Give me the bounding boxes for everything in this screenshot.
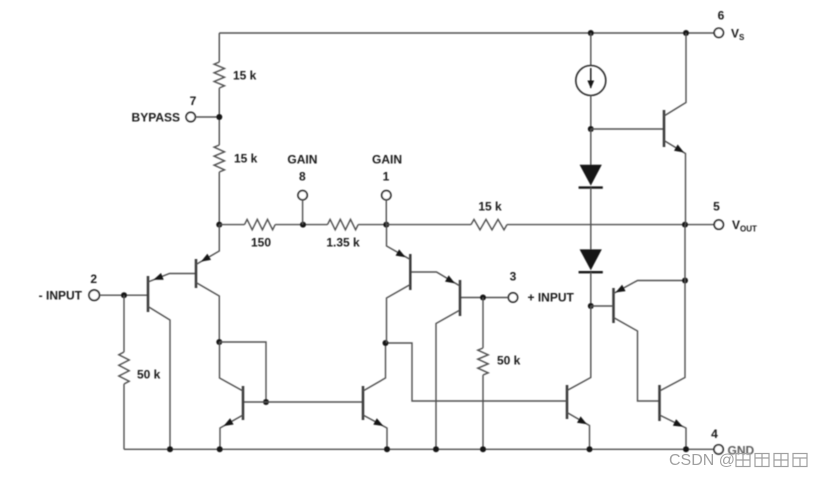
resistor R7 50k [478, 348, 521, 375]
node ground / Q7 emitter [587, 446, 593, 452]
transistor Q9 output NPN top [664, 33, 686, 225]
node gain-8 junction [300, 222, 306, 228]
svg-text:8: 8 [299, 170, 306, 184]
diode CR1 [579, 165, 603, 188]
node +input junction [480, 295, 486, 301]
svg-text:3: 3 [510, 270, 517, 284]
node mirror base junction [263, 399, 269, 405]
diode CR2 [579, 249, 603, 272]
svg-text:15 k: 15 k [478, 200, 502, 214]
node top rail / Q9 collector junction [683, 30, 689, 36]
node bypass junction [216, 114, 222, 120]
pin 6 Vs terminal [714, 9, 745, 43]
node Vout junction [682, 222, 688, 228]
pin 5 Vout terminal [713, 200, 757, 234]
wire pin7 to bypass node [195, 116, 219, 118]
svg-text:2: 2 [90, 272, 97, 286]
wire mirror diode-connect loop [219, 342, 266, 402]
pin 1 GAIN terminal [372, 153, 402, 225]
wire R3 to gain-8 node [275, 224, 327, 226]
pin 3 +INPUT terminal [508, 270, 574, 305]
pin 4 GND terminal [711, 427, 754, 458]
wire CR2 to Q10 base node [590, 272, 592, 306]
wire +input node to R7 [482, 298, 484, 349]
wire cs node to Q9 base [591, 128, 664, 130]
node gain-1 junction [383, 222, 389, 228]
resistor R4 1.35k [326, 219, 360, 249]
resistor R5 15k feedback [471, 200, 507, 230]
wire R7 to ground rail [482, 375, 484, 449]
svg-text:- INPUT: - INPUT [39, 288, 83, 302]
transistor Q10 driver PNP [591, 281, 685, 402]
svg-text:GAIN: GAIN [287, 153, 317, 167]
wire pin2 to Q1 base [100, 294, 149, 296]
svg-text:150: 150 [251, 236, 271, 250]
svg-text:VOUT: VOUT [732, 218, 757, 234]
svg-text:1.35 k: 1.35 k [326, 236, 360, 250]
node ground / Q8 emitter [683, 446, 689, 452]
node current mirror input junction [216, 339, 222, 345]
wire CR1 to CR2 [590, 188, 592, 250]
transistor Q3 input PNP [410, 272, 460, 449]
svg-text:VS: VS [731, 27, 745, 43]
wire R6 to ground rail [123, 384, 125, 449]
svg-text:4: 4 [711, 427, 718, 441]
svg-text:BYPASS: BYPASS [132, 111, 180, 125]
wire top supply rail [219, 32, 714, 34]
transistor Q7 gain NPN [567, 306, 591, 449]
node ground / Q5 emitter [217, 446, 223, 452]
wire cs node to diode CR1 [590, 129, 592, 165]
pin 7 BYPASS terminal [132, 94, 197, 125]
node diode bottom junction [588, 303, 594, 309]
wire mirror base line [243, 401, 363, 403]
watermark CSDN [669, 452, 809, 470]
pin 8 GAIN terminal [287, 153, 317, 225]
current source I1 [576, 33, 606, 129]
resistor R6 50k [119, 352, 161, 384]
wire second-stage node to Q7 base [386, 343, 568, 401]
svg-text:5: 5 [713, 200, 720, 214]
wire Vs rail corner to R1 [218, 33, 220, 62]
svg-text:6: 6 [718, 9, 725, 23]
node ground / Q1 collector [167, 446, 173, 452]
svg-text:15 k: 15 k [233, 69, 257, 83]
transistor Q1 input PNP [148, 273, 196, 449]
transistor Q8 output NPN bottom [660, 281, 687, 450]
transistor Q5 mirror NPN [220, 342, 244, 449]
node ground / R7 [480, 446, 486, 452]
svg-text:+ INPUT: + INPUT [528, 291, 575, 305]
svg-text:1: 1 [383, 170, 390, 184]
wire R5 to Vout node [507, 224, 714, 226]
wire ground rail [124, 448, 714, 450]
wire chain node to R3 [219, 224, 244, 226]
resistor R1 15k [214, 62, 257, 88]
resistor R2 15k [214, 145, 258, 172]
transistor Q6 mirror NPN [363, 343, 387, 449]
wire pin3 to Q3 base [460, 297, 508, 299]
transistor Q2 input PNP [196, 225, 219, 342]
node ground / Q6 emitter [384, 446, 390, 452]
node ground / Q3 collector [433, 446, 439, 452]
node second-stage input junction [383, 340, 389, 346]
svg-text:50 k: 50 k [137, 368, 161, 382]
node output column / Q10 emitter junction [682, 278, 688, 284]
svg-text:7: 7 [190, 94, 197, 108]
node top rail / current source junction [588, 30, 594, 36]
wire -input node to R6 [123, 295, 125, 352]
pin 2 -INPUT terminal [39, 272, 100, 302]
wire R4 to gain-1 node [358, 224, 386, 226]
svg-text:GAIN: GAIN [372, 153, 402, 167]
transistor Q4 input PNP [387, 225, 411, 343]
svg-text:15 k: 15 k [234, 152, 258, 166]
wire Vout node to Q10 emitter junction [684, 225, 686, 281]
wire R2 to gain network [218, 172, 220, 225]
resistor R3 150 [245, 219, 276, 249]
node -input junction [121, 292, 127, 298]
svg-text:50 k: 50 k [497, 354, 521, 368]
node gain chain left junction [216, 222, 222, 228]
wire gain-1 node to R5 [386, 224, 471, 226]
wire R1 to bypass node [218, 88, 220, 145]
node current source output junction [588, 126, 594, 132]
